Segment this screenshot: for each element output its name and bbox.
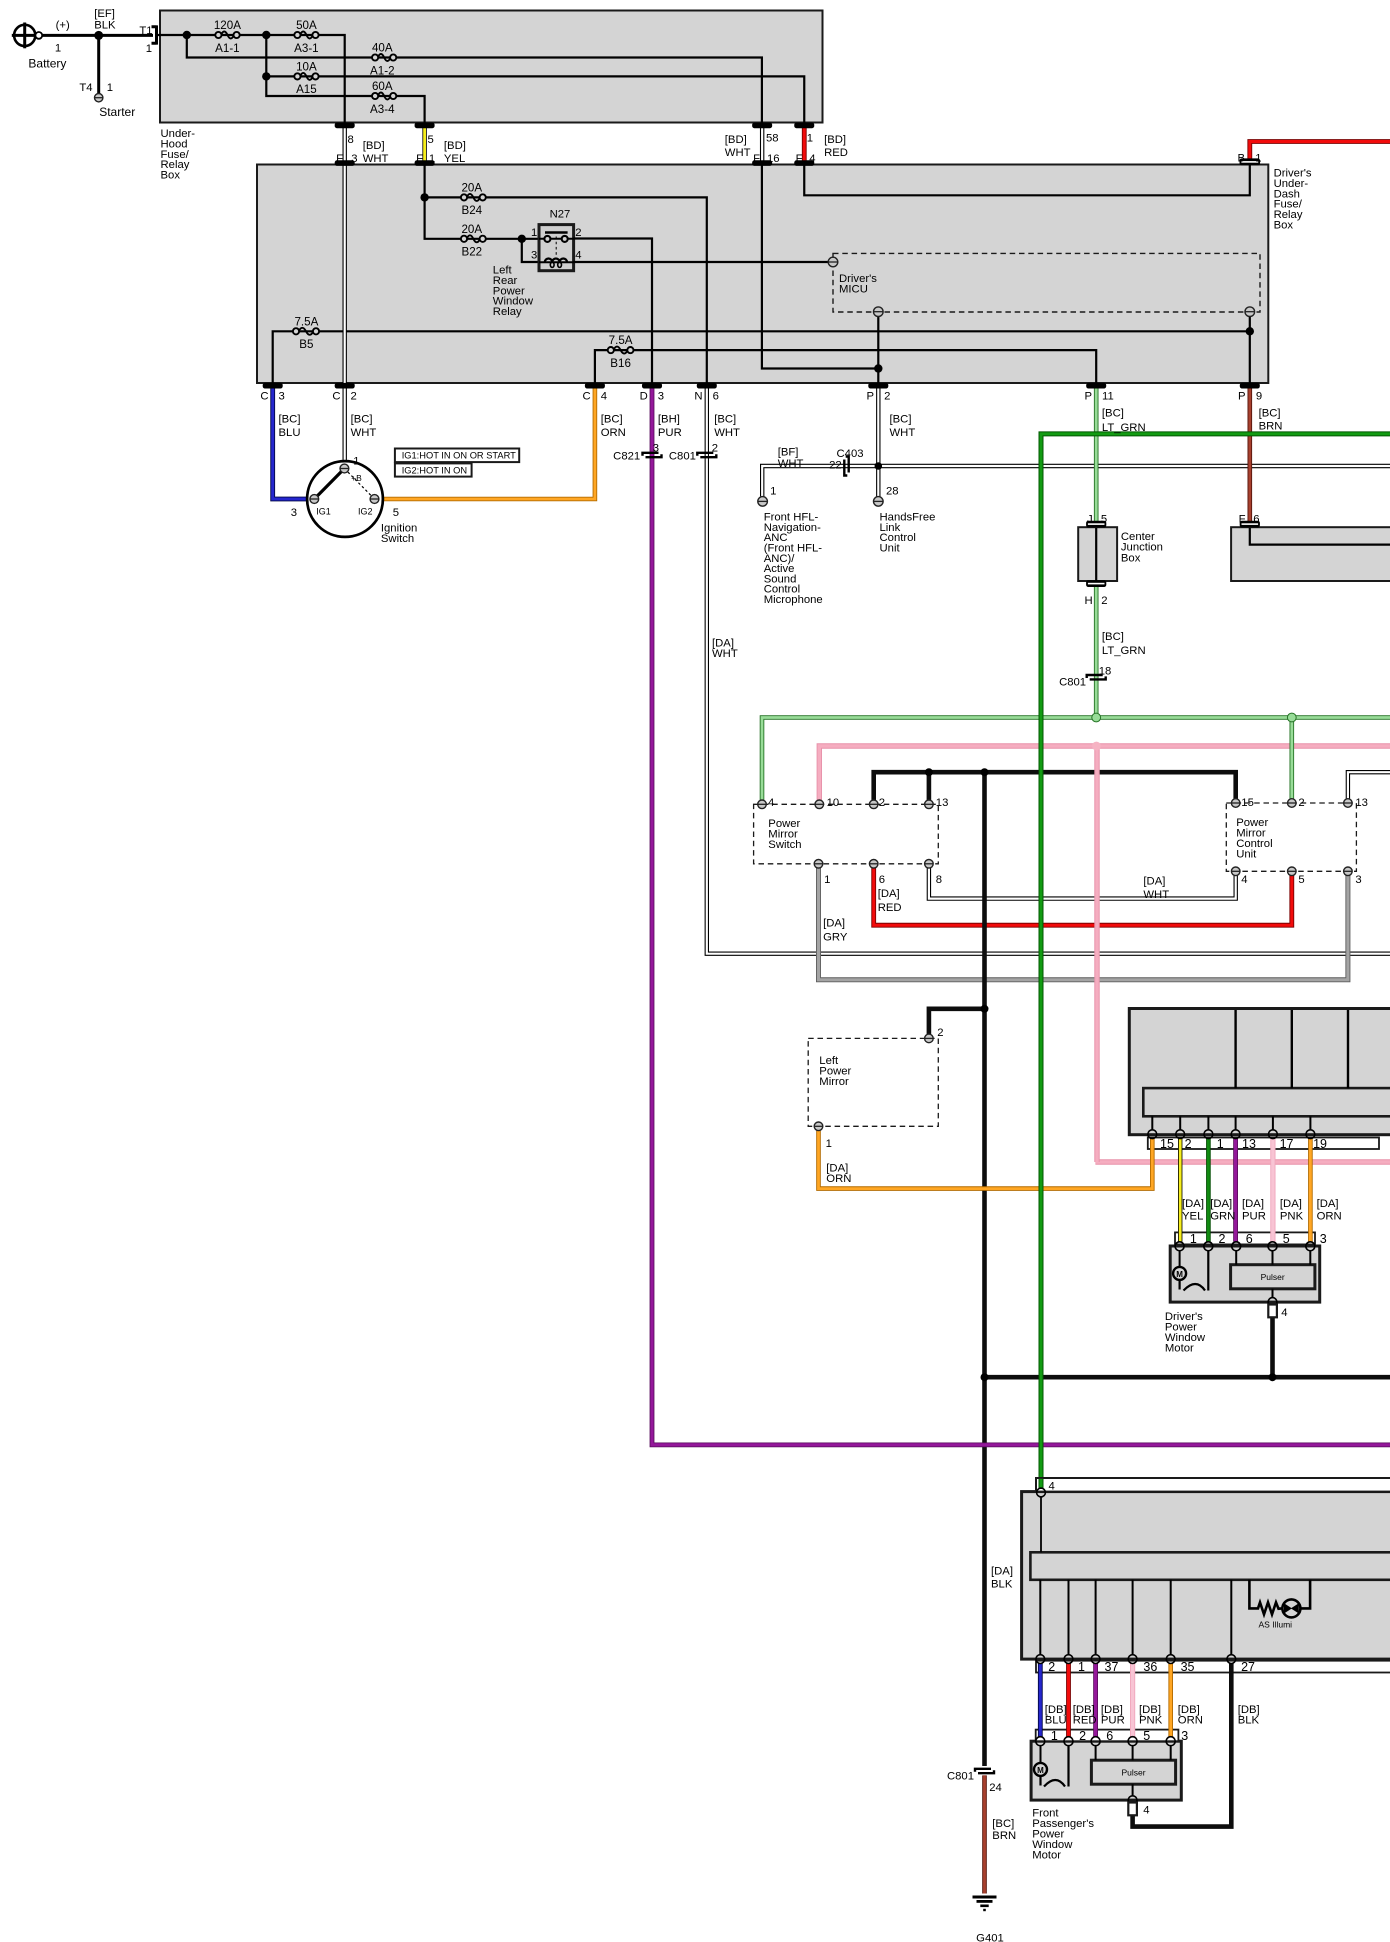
svg-text:Pulser: Pulser [1261,1272,1285,1282]
connector bar C2 [335,383,355,389]
svg-text:[BC]: [BC] [714,413,736,425]
svg-text:P: P [1084,391,1092,403]
driver motor pin 4 connector [1268,1298,1277,1307]
svg-text:6: 6 [879,874,885,886]
junction PNK node [1092,742,1101,751]
svg-text:Unit: Unit [1236,848,1257,860]
wire [DA] PUR switch 13 to motor 6 [1233,1139,1238,1242]
junction BLK bus node [981,1373,989,1381]
connector bar F6 [1240,521,1260,528]
wire through center junction box [1095,528,1097,581]
svg-text:2: 2 [1219,1232,1226,1246]
svg-text:6: 6 [1246,1232,1253,1246]
svg-text:C: C [260,391,268,403]
wire [DA] BLK mirror switch 2/13 to control 15 [874,772,1236,800]
svg-text:GRN: GRN [1210,1211,1235,1223]
svg-text:1: 1 [429,153,435,165]
svg-text:MICU: MICU [839,283,868,295]
svg-text:3: 3 [653,443,659,455]
wire [BC] LT_GRN H2 down [1094,585,1099,718]
svg-text:[DA]: [DA] [1182,1198,1204,1210]
wire [DA] WHT N6 loop [707,385,1390,954]
junction 10A node [262,72,270,80]
svg-text:2: 2 [879,797,885,809]
svg-text:BLU: BLU [279,427,301,439]
wire [DB] ORN passenger 35 to motor 3 [1168,1664,1173,1737]
wire C3 to fuse B5 [273,331,1250,385]
svg-text:GRY: GRY [823,932,848,944]
svg-text:[DA]: [DA] [1143,876,1165,888]
passenger power window motor box [1031,1741,1181,1800]
junction P9 node [1246,327,1254,335]
svg-text:F: F [753,153,760,165]
wire [DA] RED mirror switch 6 to control 5 [874,868,1292,925]
svg-text:17: 17 [1280,1137,1294,1151]
mirror switch pin 6 [869,860,878,869]
svg-text:N27: N27 [550,209,571,221]
svg-text:27: 27 [1241,1660,1255,1674]
svg-text:1: 1 [55,43,61,55]
svg-text:1: 1 [807,132,813,144]
svg-text:3: 3 [279,391,285,403]
svg-text:[BD]: [BD] [824,134,846,146]
wire [DB] BLU passenger 2 to motor 1 [1038,1664,1043,1737]
svg-text:Box: Box [1274,220,1294,232]
svg-text:2: 2 [937,1027,943,1039]
fuse 10A A15 [300,73,313,80]
svg-text:LT_GRN: LT_GRN [1102,422,1146,434]
svg-text:BRN: BRN [992,1830,1016,1842]
connector bar H2 [1086,580,1106,587]
wire [DA] BLK ground bus horizontal [985,1375,1390,1380]
passenger switch pin 4 circle [1037,1488,1046,1497]
svg-text:5: 5 [1143,1729,1150,1743]
svg-text:IG2:HOT IN ON: IG2:HOT IN ON [402,465,467,475]
T1 connector [152,25,157,44]
svg-text:28: 28 [886,486,899,498]
svg-text:WHT: WHT [1143,889,1169,901]
svg-text:Battery: Battery [28,56,66,70]
dash fuse box (right, partial) [1231,527,1390,581]
connector strip passenger pin 4 [1036,1478,1390,1492]
svg-text:WHT: WHT [351,427,377,439]
svg-text:IG2: IG2 [358,507,373,517]
battery wire to T1 [42,34,153,37]
mirror switch pin 2 [869,800,878,809]
svg-text:F: F [796,153,803,165]
svg-text:1: 1 [824,874,830,886]
svg-text:LT_GRN: LT_GRN [1102,645,1146,657]
master switch pins [1148,1130,1157,1139]
svg-text:F: F [336,153,343,165]
svg-text:Mirror: Mirror [819,1076,849,1088]
svg-text:P: P [1238,391,1246,403]
svg-text:F: F [416,153,423,165]
wire [BC] BRN to ground [982,1775,987,1893]
svg-text:[DA]: [DA] [878,888,900,900]
passenger motor pulser box [1091,1760,1175,1784]
svg-text:1: 1 [107,82,113,94]
svg-text:M: M [1176,1270,1183,1279]
svg-text:4: 4 [601,391,607,403]
AS illumi lamp [1282,1599,1300,1617]
svg-text:9: 9 [1256,391,1262,403]
svg-text:C801: C801 [669,451,696,463]
svg-text:1: 1 [1217,1137,1224,1151]
wire GRN stub through strip [1039,1479,1044,1489]
battery symbol [14,25,35,46]
connector C821 (3) [643,453,659,456]
svg-text:IG1:HOT IN ON OR START: IG1:HOT IN ON OR START [402,451,516,461]
svg-text:Box: Box [161,170,181,182]
svg-text:1: 1 [1255,153,1261,165]
svg-text:13: 13 [936,797,949,809]
junction C403 node [875,462,883,470]
svg-text:4: 4 [1241,874,1247,886]
svg-text:RED: RED [1073,1714,1097,1726]
svg-text:4: 4 [809,153,815,165]
wire [DA] GRN dark green long [1041,434,1390,1480]
svg-text:2: 2 [712,443,718,455]
svg-text:PNK: PNK [1280,1211,1304,1223]
power mirror switch dashed box [754,804,939,864]
passenger motor pins [1036,1737,1045,1746]
svg-text:C: C [583,391,591,403]
svg-text:D: D [640,391,648,403]
svg-text:Starter: Starter [99,105,135,119]
fuse 60A A3-4 [378,93,391,100]
svg-text:5: 5 [1101,514,1107,526]
svg-text:N: N [694,391,702,403]
svg-text:+B: +B [351,473,362,483]
svg-text:M: M [1037,1766,1044,1775]
svg-text:[EF]: [EF] [94,8,115,20]
svg-text:2: 2 [1079,1729,1086,1743]
connector bar P11 [1086,383,1106,389]
connector bar P9 [1240,383,1260,389]
wire [BC] LT_GRN horizontal bus [762,718,1390,801]
MICU pin P2 [874,307,884,317]
wire [DB] PUR passenger 37 to motor 6 [1093,1664,1098,1737]
svg-text:[BC]: [BC] [279,413,301,425]
connector bar F3 top (8) [335,123,355,129]
fuse 20A B22 [467,235,481,242]
driver motor pin strip [1175,1232,1315,1244]
wire [BD] RED F4 stub [802,125,807,163]
svg-text:3: 3 [1320,1232,1327,1246]
svg-text:ORN: ORN [601,427,626,439]
junction left mirror node [981,1005,989,1013]
svg-text:ORN: ORN [1317,1211,1342,1223]
connector bar B1 [1240,158,1261,165]
wire [BD] YEL F1 stub [422,125,426,163]
ignition lever [314,469,344,500]
svg-text:WHT: WHT [714,427,740,439]
svg-text:ORN: ORN [826,1173,851,1185]
passenger switch pins [1036,1655,1045,1664]
connector bar F4 bottom [794,160,814,166]
svg-text:C: C [332,391,340,403]
junction BLK vertical node [981,768,989,776]
connector bar F1 bottom [415,160,435,166]
left mirror pin 1 [814,1122,823,1131]
svg-text:[BF]: [BF] [778,446,799,458]
fuse 120A A1-1 [221,32,234,39]
wire [BD] RED B1 top [1250,142,1390,163]
ground G401 [973,1896,997,1899]
svg-text:15: 15 [1241,797,1254,809]
junction LT_GRN node 1 [1092,713,1101,722]
relay N27 left rear power window relay [539,225,574,271]
handsfree pin 28 [874,497,884,507]
svg-text:BLK: BLK [94,19,116,31]
svg-text:A1-1: A1-1 [215,42,240,55]
control unit pin 4 [1231,867,1240,876]
connector bar N6 [697,383,717,389]
passenger motor pin strip [1036,1730,1179,1742]
svg-text:B5: B5 [299,338,313,351]
junction 50A node [262,31,270,39]
svg-text:[BC]: [BC] [601,413,623,425]
HFL mic pin 1 [758,497,768,507]
wire MICU pin to P9 [1249,316,1251,385]
svg-text:[BD]: [BD] [725,134,747,146]
svg-text:BLU: BLU [1045,1714,1067,1726]
svg-text:20A: 20A [461,182,482,195]
wire [DA] PNK lower horizontal [1095,1159,1390,1164]
mirror switch pin 8 [925,860,934,869]
svg-text:58: 58 [766,132,779,144]
svg-text:7.5A: 7.5A [609,334,633,347]
svg-text:8: 8 [936,874,942,886]
control unit pin 3 [1344,867,1353,876]
svg-text:35: 35 [1181,1660,1195,1674]
svg-text:24: 24 [989,1782,1002,1794]
junction F1 node [420,193,428,201]
wire MICU pin to P2 [877,316,879,385]
wire B22 to relay coil [522,239,540,262]
connector bar F1 top (5) [415,123,435,129]
svg-text:50A: 50A [296,19,317,32]
svg-text:2: 2 [884,391,890,403]
svg-text:19: 19 [1313,1137,1327,1151]
svg-text:Motor: Motor [1032,1849,1061,1861]
svg-text:Microphone: Microphone [764,594,823,606]
wire [DA] GRY mirror switch 1 to control 3 [819,868,1348,980]
master switch pin number strip [1148,1138,1379,1150]
junction motor4 node [1269,1373,1277,1381]
svg-text:B22: B22 [461,246,482,259]
connector C801 (2) [697,453,713,456]
wire row 60A [266,76,424,125]
svg-text:1: 1 [1190,1232,1197,1246]
wire [BC] LT_GRN P11 to J5 [1094,385,1099,522]
wire WHT control unit 13 [1348,772,1390,799]
svg-text:2: 2 [351,391,357,403]
wire [DA] BLK main vertical [982,772,987,1766]
mirror switch pin 1 [814,860,823,869]
svg-text:H: H [1085,595,1093,607]
fuse 40A A1-2 [378,54,391,61]
fuse 50A A3-1 [300,32,313,39]
connector bar C3 [263,383,283,389]
svg-text:4: 4 [575,250,581,262]
front passenger power window switch box [1022,1492,1390,1660]
wire [BH] PUR D3 long [652,385,1390,1445]
svg-text:A1-2: A1-2 [370,64,395,77]
svg-text:8: 8 [348,134,354,146]
svg-text:PUR: PUR [1101,1714,1125,1726]
svg-text:2: 2 [575,227,581,239]
svg-text:RED: RED [878,902,902,914]
svg-text:WHT: WHT [778,458,804,470]
svg-text:Relay: Relay [493,306,522,318]
passenger motor pulser stubs [1095,1746,1097,1761]
starter terminal [95,94,103,102]
svg-text:Switch: Switch [768,839,801,851]
svg-text:[BC]: [BC] [1259,408,1281,420]
MICU pin P9 [1245,307,1255,317]
svg-text:PNK: PNK [1139,1714,1163,1726]
wire [DA] BLK driver motor 4 [1270,1307,1275,1378]
control unit pin 2 [1288,799,1297,808]
wire [DB] PNK passenger 36 to motor 5 [1130,1664,1135,1737]
wire F4 to B1 [804,162,1250,195]
svg-text:RED: RED [824,147,848,159]
wire [BC] BRN P9 to F6 [1248,385,1253,522]
wire C4 to fuse B16 [595,350,1096,385]
junction mirror switch 13 node [925,768,933,776]
svg-text:7.5A: 7.5A [294,315,318,328]
svg-text:P: P [867,391,875,403]
wire [DA] PNK switch 17 to motor 5 [1270,1139,1275,1242]
svg-text:A15: A15 [296,83,317,96]
connector bar 58 top [752,123,772,129]
svg-text:Pulser: Pulser [1121,1768,1145,1778]
power window master switch box [1129,1009,1390,1135]
svg-text:2: 2 [1185,1137,1192,1151]
wire [BD] WHT F3 stub [343,125,347,163]
svg-text:3: 3 [531,250,537,262]
junction LT_GRN node 2 [1287,713,1296,722]
svg-text:AS Illumi: AS Illumi [1259,1620,1293,1630]
connector C801 (24) [975,1769,991,1772]
svg-text:YEL: YEL [1182,1211,1203,1223]
svg-text:1: 1 [146,43,152,55]
svg-text:BLK: BLK [991,1578,1013,1590]
wire [DA] YEL switch 2 to motor 1 [1178,1139,1182,1242]
wire F6 into dash box [1250,528,1390,545]
svg-text:PUR: PUR [658,427,682,439]
wire [DA] PNK vertical long [1094,746,1099,1162]
svg-text:A3-4: A3-4 [370,103,395,116]
wire [DB] RED passenger 1 to motor 2 [1066,1664,1071,1737]
svg-text:YEL: YEL [444,153,465,165]
wire relay pin2 to D3 [573,239,652,386]
under-hood fuse/relay box [160,11,823,123]
svg-text:1: 1 [826,1138,832,1150]
fuse 7.5A B16 [613,347,627,354]
svg-text:WHT: WHT [363,153,389,165]
center junction box [1078,527,1117,581]
svg-text:4: 4 [1143,1805,1149,1817]
svg-text:10A: 10A [296,61,317,74]
svg-text:1: 1 [353,456,359,468]
master switch inner connector strip [1143,1088,1390,1116]
MICU pin left [828,257,838,267]
svg-text:6: 6 [1253,514,1259,526]
svg-text:[BD]: [BD] [444,140,466,152]
svg-text:2: 2 [1101,595,1107,607]
svg-text:13: 13 [1355,797,1368,809]
svg-text:5: 5 [393,507,399,519]
svg-text:5: 5 [1283,1232,1290,1246]
svg-text:5: 5 [1298,874,1304,886]
svg-text:1: 1 [531,227,537,239]
svg-text:IG1: IG1 [316,507,331,517]
fuse 7.5A B5 [299,328,314,335]
ignition terminal IG1 [310,495,319,504]
mirror switch pin 4 [758,800,767,809]
wire [DA] GRN switch 1 to motor 2 [1206,1139,1211,1242]
svg-text:18: 18 [1099,666,1112,678]
wire [DA] BLK left mirror 2 [929,1009,985,1034]
svg-text:120A: 120A [214,19,241,32]
control unit pin 15 [1231,799,1240,808]
wire [BC] ORN C4 to IG2 [379,385,595,499]
wire [BF] WHT to HFL mic [762,466,1390,496]
connector bar F16 bottom [752,160,772,166]
svg-text:1: 1 [1051,1729,1058,1743]
svg-text:6: 6 [713,391,719,403]
svg-text:[BH]: [BH] [658,413,680,425]
svg-text:3: 3 [658,391,664,403]
connector bar D3 [642,383,662,389]
svg-text:37: 37 [1105,1660,1119,1674]
svg-text:[DA]: [DA] [1210,1198,1232,1210]
svg-text:T4: T4 [79,82,92,94]
svg-text:4: 4 [1281,1307,1287,1319]
svg-text:10: 10 [827,797,840,809]
connector bar C4 [585,383,605,389]
svg-text:Box: Box [1121,552,1141,564]
svg-text:C801: C801 [1059,677,1086,689]
svg-text:[BC]: [BC] [992,1818,1014,1830]
wire [BC] BLU C3 to IG1 [273,385,310,499]
svg-text:36: 36 [1143,1660,1157,1674]
svg-text:3: 3 [351,153,357,165]
wire LT_GRN to control unit 2 [1290,718,1295,799]
passenger switch pin number strip [1036,1661,1390,1673]
svg-text:(+): (+) [56,20,70,32]
svg-text:40A: 40A [372,42,393,55]
svg-text:WHT: WHT [890,427,916,439]
svg-text:WHT: WHT [725,147,751,159]
wire F1 feed to fuses B24/B22 [425,163,707,385]
left mirror pin 2 [925,1034,934,1043]
fuse 20A B24 [467,194,481,201]
svg-text:6: 6 [1106,1729,1113,1743]
driver motor pins [1175,1242,1184,1251]
connector bar J5 [1086,521,1106,528]
mirror switch pin 13 [925,800,934,809]
master switch dividers [1234,1010,1236,1088]
driver motor pulser stubs [1235,1251,1237,1265]
svg-text:C801: C801 [947,1770,974,1782]
passenger motor M symbol [1040,1746,1042,1763]
svg-text:C821: C821 [613,451,640,463]
wire relay pin4 to MICU [573,261,828,263]
